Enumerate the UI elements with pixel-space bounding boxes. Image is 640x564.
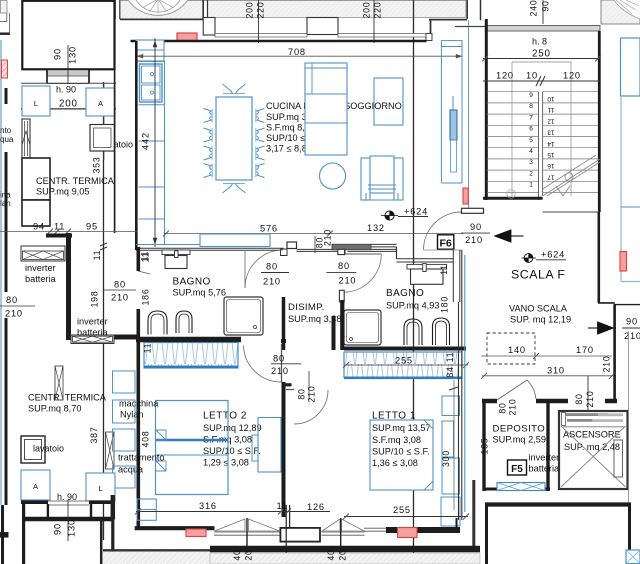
svg-text:130: 130	[67, 519, 77, 537]
svg-text:batteria: batteria	[529, 464, 561, 474]
svg-text:16: 16	[547, 162, 555, 169]
svg-text:20: 20	[244, 549, 254, 560]
svg-text:Nylan: Nylan	[120, 410, 144, 420]
svg-text:11: 11	[439, 264, 449, 275]
svg-text:+624: +624	[404, 207, 428, 217]
svg-text:5: 5	[529, 137, 533, 144]
svg-text:+624: +624	[541, 250, 565, 260]
svg-text:300: 300	[441, 450, 451, 467]
svg-text:8: 8	[529, 103, 533, 110]
svg-text:210: 210	[602, 356, 612, 373]
svg-text:185: 185	[480, 438, 490, 455]
svg-text:BAGNO: BAGNO	[386, 288, 424, 299]
svg-text:140: 140	[508, 345, 526, 355]
svg-text:80: 80	[297, 388, 307, 399]
svg-text:80: 80	[338, 261, 350, 271]
svg-text:SUP.mq 12,89: SUP.mq 12,89	[203, 423, 262, 433]
svg-text:200: 200	[59, 99, 78, 110]
svg-text:90: 90	[626, 317, 638, 327]
svg-text:132: 132	[367, 223, 385, 233]
svg-text:SCALA F: SCALA F	[511, 267, 565, 281]
svg-text:90: 90	[53, 48, 63, 60]
svg-text:h. 90: h. 90	[56, 85, 76, 95]
svg-text:255: 255	[393, 505, 411, 515]
svg-text:120: 120	[496, 71, 514, 81]
svg-text:A: A	[98, 99, 103, 108]
svg-text:126: 126	[307, 502, 325, 512]
svg-text:120: 120	[563, 71, 581, 81]
svg-text:210: 210	[111, 293, 129, 303]
svg-text:inverter: inverter	[77, 317, 108, 327]
svg-text:210: 210	[624, 331, 640, 341]
svg-text:84: 84	[445, 366, 455, 377]
svg-text:batteria: batteria	[77, 328, 109, 338]
svg-text:1,29 ≤ 3,08: 1,29 ≤ 3,08	[203, 458, 249, 468]
svg-text:DISIMP.: DISIMP.	[288, 302, 325, 313]
svg-text:trattamento: trattamento	[118, 453, 164, 463]
svg-text:130: 130	[68, 46, 78, 64]
svg-text:F5: F5	[511, 464, 523, 475]
svg-text:3: 3	[529, 159, 533, 166]
svg-text:220: 220	[373, 2, 383, 19]
svg-text:11: 11	[277, 501, 288, 511]
svg-text:CENTR. TERMICA: CENTR. TERMICA	[28, 393, 107, 403]
svg-text:inverter: inverter	[529, 453, 560, 463]
svg-text:SUP/10 ≤ S.F.: SUP/10 ≤ S.F.	[372, 447, 430, 457]
svg-text:SUP.mq 2,59: SUP.mq 2,59	[493, 435, 546, 445]
svg-text:95: 95	[86, 222, 98, 232]
svg-text:210: 210	[465, 235, 483, 245]
svg-text:408: 408	[141, 431, 151, 448]
svg-text:11: 11	[445, 352, 455, 363]
svg-text:lan: lan	[0, 199, 11, 208]
svg-text:576: 576	[260, 224, 278, 234]
svg-text:250: 250	[532, 49, 551, 60]
svg-text:80: 80	[273, 354, 285, 364]
svg-text:80: 80	[574, 393, 584, 404]
svg-text:80: 80	[266, 262, 278, 272]
svg-text:90: 90	[470, 222, 482, 232]
svg-text:80: 80	[498, 402, 508, 413]
svg-text:2: 2	[529, 170, 533, 177]
svg-text:17: 17	[547, 173, 555, 180]
svg-text:90: 90	[53, 523, 63, 535]
svg-text:11: 11	[143, 343, 153, 354]
svg-text:90: 90	[541, 0, 551, 11]
svg-text:nto: nto	[0, 126, 12, 135]
svg-text:442: 442	[141, 132, 151, 150]
svg-text:11: 11	[141, 252, 151, 263]
svg-text:387: 387	[89, 427, 99, 444]
svg-text:200: 200	[245, 2, 255, 19]
svg-text:1: 1	[529, 182, 533, 189]
svg-text:VANO SCALA: VANO SCALA	[509, 304, 568, 314]
svg-text:6: 6	[529, 126, 533, 133]
svg-text:94: 94	[33, 222, 45, 232]
svg-text:240: 240	[529, 0, 539, 17]
svg-text:11: 11	[92, 250, 102, 261]
svg-text:F6: F6	[439, 237, 451, 249]
svg-text:LETTO 2: LETTO 2	[203, 411, 247, 422]
svg-text:7: 7	[529, 114, 533, 121]
svg-text:15: 15	[547, 151, 555, 158]
svg-text:180: 180	[440, 296, 450, 313]
svg-text:10: 10	[547, 95, 555, 102]
svg-text:BAGNO: BAGNO	[173, 277, 211, 288]
svg-text:SUP. mq 2,48: SUP. mq 2,48	[564, 442, 620, 452]
svg-text:SUP.mq 8,70: SUP.mq 8,70	[28, 404, 81, 414]
svg-text:255: 255	[395, 356, 413, 366]
svg-text:210: 210	[5, 309, 23, 319]
svg-text:L: L	[34, 99, 38, 108]
svg-text:210: 210	[271, 366, 289, 376]
svg-text:SUP.mq 13,57: SUP.mq 13,57	[372, 423, 431, 433]
svg-text:9: 9	[529, 92, 533, 99]
svg-text:198: 198	[90, 291, 100, 308]
svg-text:inverter: inverter	[25, 263, 56, 273]
svg-text:h. 90: h. 90	[57, 492, 77, 502]
svg-text:170: 170	[576, 345, 594, 355]
svg-text:batteria: batteria	[25, 274, 57, 284]
svg-text:ASCENSORE: ASCENSORE	[563, 430, 621, 440]
svg-text:SUP.mq 5,76: SUP.mq 5,76	[173, 288, 226, 298]
svg-text:80: 80	[114, 280, 126, 290]
svg-text:11: 11	[54, 222, 65, 232]
svg-text:SUP. mq 12,19: SUP. mq 12,19	[510, 315, 571, 325]
svg-text:SUP.mq 4,93: SUP.mq 4,93	[386, 301, 439, 311]
svg-text:L: L	[98, 484, 102, 493]
svg-text:708: 708	[288, 47, 306, 57]
svg-text:S.F.mq 3,08: S.F.mq 3,08	[372, 435, 421, 445]
svg-text:12: 12	[547, 117, 555, 124]
svg-text:210: 210	[339, 276, 357, 286]
svg-text:13: 13	[547, 129, 555, 136]
svg-text:210: 210	[307, 386, 317, 403]
svg-text:210: 210	[585, 391, 595, 408]
svg-text:10: 10	[526, 71, 538, 81]
svg-text:210: 210	[263, 277, 281, 287]
svg-text:200: 200	[362, 2, 372, 19]
svg-text:40: 40	[326, 549, 336, 560]
svg-text:4: 4	[529, 148, 533, 155]
svg-text:14: 14	[547, 140, 555, 147]
svg-text:316: 316	[199, 501, 217, 511]
svg-text:A: A	[33, 482, 38, 491]
svg-text:353: 353	[92, 157, 102, 174]
svg-text:310: 310	[547, 366, 565, 376]
svg-text:h. 8: h. 8	[532, 37, 547, 47]
svg-text:1,36 ≤ 3,08: 1,36 ≤ 3,08	[372, 458, 418, 468]
svg-text:lavatoio: lavatoio	[33, 444, 64, 454]
svg-text:210: 210	[508, 399, 518, 416]
svg-text:80: 80	[6, 295, 18, 305]
svg-text:DEPOSITO: DEPOSITO	[493, 424, 546, 435]
svg-text:186: 186	[141, 289, 151, 306]
svg-text:11: 11	[547, 106, 554, 113]
svg-text:220: 220	[256, 2, 266, 19]
svg-text:SUP.mq 9,05: SUP.mq 9,05	[36, 187, 89, 197]
svg-text:qua: qua	[0, 135, 14, 144]
svg-text:20: 20	[338, 549, 348, 560]
svg-text:40: 40	[232, 549, 242, 560]
svg-text:210: 210	[323, 229, 333, 246]
svg-text:CENTR. TERMICA: CENTR. TERMICA	[36, 176, 115, 186]
